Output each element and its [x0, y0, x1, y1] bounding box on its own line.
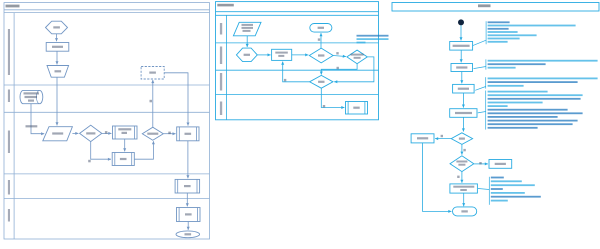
text 写客户信: [275, 52, 288, 54]
wire 是->配送: [321, 88, 344, 107]
process 写客户信息: [272, 49, 292, 60]
annotation bracket B1: [485, 21, 487, 44]
wire 配货->发货: [186, 193, 188, 206]
pool title 线下药师审核: [217, 4, 234, 7]
text 拆分订单: [456, 66, 467, 68]
process 获取订单信息: [450, 42, 473, 51]
annotation 备注 line3: [357, 42, 366, 44]
text 选择商品: [52, 46, 63, 48]
label 是: [150, 100, 153, 103]
wire 写客户信息->审核: [292, 54, 309, 56]
pool title bar bottom: [216, 11, 379, 13]
wire 是->两次支付判断: [461, 144, 463, 154]
text 话单平台数: [351, 54, 364, 56]
text 据(记录支: [25, 96, 38, 98]
process 明细订单提交支付单: [450, 184, 478, 193]
lane4 label 仓储系统: [8, 180, 10, 195]
lane divider 2/3: [4, 111, 210, 113]
wire 数据->接收订单: [31, 104, 44, 134]
data 接收订单 parallelogram: [43, 127, 73, 141]
pool 订单主流程 outer border: [4, 3, 210, 239]
text 检查反单: [417, 137, 428, 139]
annotation bracket B5: [488, 177, 490, 205]
label 否: [441, 135, 443, 137]
annotation B3 line3: [488, 85, 524, 87]
user action 支付 (dashed): [141, 67, 164, 80]
wire 支付->配货: [187, 141, 189, 179]
annotation B4 line9: [488, 120, 578, 122]
annotation B3 line1: [488, 78, 598, 80]
text 结束: [353, 107, 359, 109]
text 发货: [185, 213, 192, 215]
annotation B4 line7: [488, 112, 583, 114]
start hexagon 开始: [236, 48, 257, 62]
wire 是否需->自动风控审核: [102, 132, 112, 134]
wire 选择商品->提交: [56, 51, 58, 64]
process 检查支付结果: [450, 109, 477, 118]
text 检查支付结果: [455, 112, 472, 114]
process 拆分订单: [451, 64, 473, 72]
label 是: [463, 149, 465, 151]
text 是否支付: [147, 133, 158, 135]
wire 是->审核(二): [321, 64, 357, 75]
lane divider 3/4: [216, 94, 379, 96]
wire ->检查支付结果: [462, 93, 464, 108]
decision 是否以平台参数为准: [347, 50, 367, 64]
start hexagon 准备: [46, 21, 68, 34]
label 否: [336, 52, 338, 54]
pool title bar bottom line: [4, 9, 210, 11]
process 选择商品: [46, 43, 69, 52]
predefined 自动风控审核: [113, 126, 138, 139]
text 结束: [318, 27, 324, 29]
text 付单: [460, 189, 467, 191]
annotation B4 line5: [488, 105, 508, 107]
text 为准: [354, 57, 361, 59]
annotation B1 line7: [488, 41, 508, 43]
text 审核: [318, 54, 324, 56]
annotation B5 line2: [491, 180, 522, 182]
wire 否->投单: [91, 142, 111, 160]
predefined 配送/结束: [346, 102, 368, 115]
annotation connector B2->拆分订单: [474, 67, 486, 69]
lane1 label C端小程序: [8, 29, 10, 75]
terminator 结束 (middle lane1): [310, 24, 332, 33]
lane3 label 订单中心: [8, 131, 10, 154]
decision 是否需风控: [80, 125, 102, 141]
label 是: [337, 67, 339, 69]
annotation 备注 line1: [357, 35, 389, 37]
data 处方药订单 parallelogram: [233, 22, 261, 36]
text 平台订单数: [24, 92, 40, 94]
wire 检查反单->结束: [423, 143, 452, 212]
text 审核: [243, 30, 251, 32]
annotation B1 line2: [488, 25, 576, 27]
annotation B5 line5: [491, 192, 525, 194]
annotation B4 line2: [488, 94, 583, 96]
annotation connector B3->预售子单: [475, 87, 486, 91]
text 支付: [149, 72, 156, 74]
label 是: [323, 105, 325, 107]
predefined 支付: [177, 127, 199, 141]
text 准备: [53, 26, 60, 28]
wire start->获取订单信息: [460, 25, 462, 40]
text 两次支付: [458, 164, 465, 166]
annotation B5 line1: [491, 177, 504, 179]
annotation B5 line3: [491, 184, 535, 186]
lane2 label 平台DB: [8, 90, 10, 103]
wire 发货->结束: [187, 222, 189, 230]
text 支付: [185, 133, 192, 135]
annotation B4 line1: [488, 91, 548, 93]
decision 是否支付: [142, 127, 163, 140]
lane divider 2/3: [216, 69, 379, 71]
wire 否->写客户信息: [283, 62, 310, 82]
annotation B4 line10: [488, 123, 573, 125]
stored data 平台订单数据(记录支付): [20, 90, 43, 103]
annotation B3 line2: [488, 81, 578, 83]
lane5 label 物流系统: [8, 209, 10, 222]
text 获取订单信息: [453, 45, 470, 47]
text 自动风控: [118, 128, 131, 130]
annotation B5 line6: [491, 196, 541, 198]
wire ->预售子单: [461, 72, 463, 84]
annotation B4 line6: [488, 109, 568, 111]
wire 自动风控审核->投单: [124, 139, 126, 151]
text 是否需要: [456, 161, 467, 163]
text 结束: [461, 210, 467, 212]
pool title 订单主流程: [6, 5, 20, 8]
text 拆分订单: [495, 163, 506, 165]
label 是: [105, 131, 108, 134]
m-lane1 label C端触发: [220, 23, 222, 35]
terminator 结束 (right): [453, 207, 477, 216]
pool header band line: [4, 12, 210, 14]
label 接口调用: [26, 125, 38, 127]
decision 审核(二): [310, 75, 333, 88]
text 结束: [185, 233, 192, 235]
start node (filled circle): [458, 19, 464, 25]
annotation B5 line7: [491, 200, 508, 202]
annotation B2 line2: [488, 63, 546, 65]
wire 否->明细订单: [461, 172, 463, 183]
text 单需药师: [242, 27, 254, 29]
lane label column divider: [226, 15, 228, 120]
process 预售子单: [453, 84, 475, 93]
wire 平台参数->审核(二)右: [334, 57, 374, 82]
text 订单: [459, 138, 465, 140]
title bar 拆单流程: [392, 3, 599, 12]
process 检查反单: [411, 134, 434, 143]
annotation B1 line4: [488, 31, 518, 33]
terminator 结束 (left): [176, 231, 200, 238]
wire 否->支付处理: [163, 133, 175, 135]
predefined 投单: [112, 153, 134, 166]
title 拆单流程: [478, 4, 491, 7]
decision 审核(一): [309, 48, 333, 63]
label 是: [479, 162, 481, 164]
text 付): [28, 100, 34, 102]
m-lane2 label 药师端一审核: [220, 47, 222, 65]
m-lane3 label 药师端二审核: [220, 73, 222, 91]
lane divider 1/2: [4, 84, 210, 86]
text 接收订单: [52, 132, 63, 134]
annotation B2 line1: [488, 60, 598, 62]
text 投单: [120, 158, 127, 160]
text 明细订单、提交支: [453, 186, 474, 188]
annotation B1 line3: [488, 28, 509, 30]
text 提交: [55, 70, 62, 72]
pool header band line: [216, 14, 379, 16]
annotation B4 line3: [488, 98, 581, 100]
annotation connector B1->获取订单信息: [473, 40, 486, 45]
lane divider 3/4: [4, 173, 210, 175]
label 否: [457, 176, 459, 178]
wire 开始->写客户信息: [257, 54, 270, 56]
text 审核: [318, 81, 324, 83]
label 否: [168, 132, 171, 135]
text 预售子单: [458, 88, 469, 90]
lane divider 4/5: [4, 198, 210, 200]
lane label column divider: [13, 13, 15, 239]
annotation connector B5->明细订单: [478, 189, 489, 190]
wire 是->拆分订单R: [474, 163, 488, 165]
predefined 发货: [177, 208, 201, 222]
label 否: [284, 79, 286, 81]
decision 是否需要两次支付: [450, 156, 474, 172]
lane divider 1/2: [216, 42, 379, 44]
text 息: [278, 55, 284, 57]
wire 准备->选择商品: [56, 34, 58, 41]
annotation B1 line1: [488, 21, 510, 23]
predefined 配货: [175, 179, 200, 193]
wire 接收订单->是否需风控: [72, 132, 78, 134]
annotation B1 line6: [488, 38, 520, 40]
annotation B1 line5: [488, 34, 537, 36]
wire 否->检查反单: [435, 138, 451, 140]
annotation B2 line3: [488, 67, 516, 69]
text 开始: [244, 54, 250, 56]
label 是: [318, 38, 320, 40]
wire ->订单判断: [462, 117, 464, 131]
wire 提交->接收订单: [56, 77, 58, 125]
wire 是->支付(dashed): [152, 80, 154, 127]
annotation bracket B2: [485, 59, 487, 69]
annotation B4 line4: [488, 102, 543, 104]
label 否: [88, 160, 91, 163]
annotation B5 line4: [491, 188, 503, 190]
text 审核: [122, 132, 128, 134]
m-lane4 label 配送系统: [220, 102, 222, 116]
wire 审核否->平台参数: [333, 56, 346, 57]
wire 处方药订单->开始: [246, 36, 248, 47]
pool 线下药师审核 outer border: [216, 2, 379, 120]
wire ->结束: [463, 193, 465, 206]
wire 审核是->结束: [320, 33, 322, 48]
annotation B4 line11: [488, 127, 538, 129]
text 处方药订: [242, 24, 254, 26]
wire ->拆分订单: [460, 50, 462, 62]
wire 支付->支付处理: [164, 73, 188, 126]
annotation B4 line8: [488, 116, 558, 118]
annotation bracket B3: [485, 77, 487, 88]
manual operation 提交: [47, 66, 69, 78]
process 拆分订单(二次): [489, 160, 512, 169]
text 是否需: [86, 132, 95, 134]
annotation bracket B4: [485, 91, 487, 130]
wire 投单->是否支付: [134, 141, 153, 159]
annotation 备注 line2: [357, 38, 389, 40]
text 配货: [184, 185, 191, 187]
decision 订单: [451, 133, 472, 145]
annotation connector B4->检查支付结果: [478, 112, 486, 113]
